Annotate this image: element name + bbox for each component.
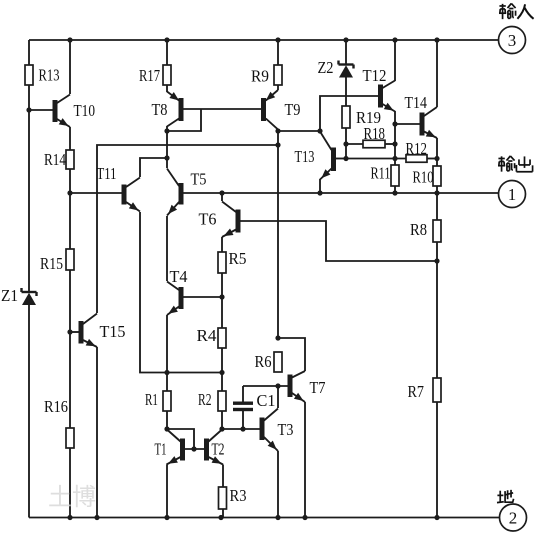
wire: feedback line y=145 to T15 collector	[97, 145, 278, 313]
label R6	[255, 352, 272, 371]
label ground 地	[497, 490, 514, 503]
junction dots column x=70	[67, 190, 72, 334]
svg-text:R18: R18	[364, 124, 386, 143]
resistor R19	[342, 106, 350, 128]
transistor T9	[261, 90, 278, 130]
svg-text:R16: R16	[44, 397, 68, 416]
svg-text:T2: T2	[212, 440, 225, 459]
label R9	[251, 67, 269, 86]
label input 输入	[499, 3, 534, 19]
svg-text:R7: R7	[408, 382, 425, 401]
wire: T11 base	[70, 192, 122, 194]
junction dots column x=437	[434, 156, 439, 264]
resistor R17	[163, 65, 171, 85]
svg-text:T11: T11	[97, 164, 117, 183]
wire: column x=395 (T12 emitter, R11)	[394, 40, 396, 193]
svg-text:T14: T14	[405, 93, 428, 112]
resistor R5	[218, 252, 226, 273]
label T10	[74, 101, 96, 120]
transistor T8	[167, 92, 184, 127]
svg-text:Z2: Z2	[318, 58, 334, 77]
wire: C1 top stem	[242, 386, 244, 402]
svg-text:C1: C1	[257, 391, 276, 410]
wire: T10 base	[29, 109, 53, 111]
resistor R8	[433, 220, 441, 242]
svg-text:Z1: Z1	[1, 286, 18, 305]
wire: R12 row y=158	[346, 158, 437, 160]
wire: column x=278 (R9, T9, R6, T3)	[277, 40, 279, 518]
wire: T12 base	[320, 96, 378, 131]
transistor T11	[122, 178, 141, 212]
svg-text:T6: T6	[199, 210, 217, 229]
label R1	[145, 390, 158, 409]
label T1	[155, 440, 167, 459]
resistor R13	[25, 65, 33, 85]
svg-text:R4: R4	[197, 326, 217, 345]
resistor R11	[391, 165, 399, 186]
zener diode Z2	[339, 61, 354, 78]
junction dots on bottom rail	[67, 515, 439, 520]
junction dot base tie	[191, 446, 196, 451]
resistor R4	[218, 328, 226, 348]
transistor T7	[288, 371, 306, 402]
wire: output row y=193	[183, 192, 498, 194]
wire: R6 node row y=386 (T7 base, C1 top)	[243, 385, 288, 387]
svg-text:R11: R11	[371, 164, 391, 183]
label R7	[408, 382, 425, 401]
junction dot C1 bottom	[240, 426, 245, 431]
resistor R14	[66, 150, 74, 169]
transistor T12	[378, 81, 395, 112]
wire: T13 base	[336, 158, 346, 160]
svg-text:R15: R15	[40, 254, 63, 273]
label T8	[152, 100, 168, 119]
terminal 3 (input pin)	[499, 27, 526, 54]
svg-text:土博: 土博	[48, 484, 96, 511]
svg-text:R14: R14	[44, 150, 66, 169]
label T15	[100, 322, 126, 341]
junction dots column x=222	[219, 190, 224, 431]
label R2	[198, 390, 212, 409]
wire: input top rail	[29, 39, 498, 41]
terminal 1 (output pin)	[499, 181, 526, 208]
transistor T4	[167, 282, 184, 316]
label R3	[230, 486, 247, 505]
wire: tail rail y=373	[167, 372, 222, 374]
label T13	[295, 147, 315, 166]
wire: T14 base	[395, 123, 420, 125]
resistor R16	[66, 428, 74, 448]
wire: R1 to T1/T2 base tie	[167, 429, 194, 449]
wire: T7 collector feed	[278, 338, 305, 371]
label T5	[191, 170, 207, 189]
svg-text:T12: T12	[363, 66, 387, 85]
wire: T2/T3 base row y=429	[222, 428, 260, 430]
svg-text:T9: T9	[285, 100, 301, 119]
junction dots column x=320	[317, 128, 322, 195]
junction dots column x=278	[275, 128, 280, 388]
svg-text:R6: R6	[255, 352, 272, 371]
label T14	[405, 93, 428, 112]
svg-text:T1: T1	[155, 440, 167, 459]
transistor T3	[260, 409, 279, 452]
resistor R10	[433, 166, 441, 186]
wire: T8 collector tie	[167, 109, 201, 131]
label T4	[170, 267, 188, 286]
svg-text:R17: R17	[139, 66, 160, 85]
svg-text:R13: R13	[39, 66, 60, 85]
wire: T1-T2 base row	[184, 448, 205, 450]
watermark smudge	[48, 484, 96, 511]
svg-text:R1: R1	[145, 390, 158, 409]
svg-text:T4: T4	[170, 267, 188, 286]
transistor T6	[222, 202, 241, 238]
transistor T2	[204, 430, 223, 465]
wire: T7 emitter column	[304, 402, 306, 518]
svg-text:1: 1	[508, 185, 517, 204]
transistor T5	[167, 169, 184, 216]
label R12	[406, 139, 428, 158]
label output 输出	[498, 156, 533, 172]
label T7	[310, 378, 326, 397]
transistor T14	[420, 107, 438, 138]
label T11	[97, 164, 117, 183]
label R10	[413, 168, 434, 187]
wire: T13 emitter to output row	[319, 179, 321, 193]
label T2	[212, 440, 225, 459]
wire: T11 emitter down to tail rail	[140, 212, 167, 373]
junction dot T10 base	[26, 107, 31, 112]
svg-text:T15: T15	[100, 322, 126, 341]
wire: left column x=29	[28, 40, 30, 518]
wire: column x=346 (Z2, R19)	[345, 40, 347, 158]
wire: column x=222 (T6 emitter, R5, T4 base node, R4, R2, T2 collector)	[221, 193, 223, 429]
label Z1	[1, 286, 18, 305]
svg-text:2: 2	[509, 509, 518, 528]
wire: T2 emitter to R3	[222, 465, 224, 518]
resistor R2	[218, 391, 226, 411]
junction dots on top rail	[67, 37, 439, 42]
junction dots column x=167	[164, 128, 169, 431]
svg-text:3: 3	[508, 31, 517, 50]
svg-text:R2: R2	[198, 390, 212, 409]
svg-text:R10: R10	[413, 168, 434, 187]
wire: C1 bottom stem	[242, 411, 244, 429]
svg-text:T8: T8	[152, 100, 168, 119]
wire: column x=167 (R17, T8 collector, T5, T4, R1, T1)	[166, 40, 168, 518]
wire: T4 base	[183, 296, 222, 298]
svg-text:T3: T3	[278, 420, 294, 439]
label R15	[40, 254, 63, 273]
svg-text:T13: T13	[295, 147, 315, 166]
wire: ground bottom rail	[29, 517, 499, 519]
resistor R6	[274, 352, 282, 372]
svg-text:R8: R8	[410, 220, 427, 239]
label R8	[410, 220, 427, 239]
svg-text:R3: R3	[230, 486, 247, 505]
label R16	[44, 397, 68, 416]
label C1	[257, 391, 276, 410]
transistor T13	[320, 132, 336, 180]
svg-text:R5: R5	[229, 249, 247, 268]
wire: T9 collector to T13 collector node	[278, 130, 320, 132]
zener diode Z1	[22, 288, 37, 305]
label R18	[364, 124, 386, 143]
capacitor C1	[233, 402, 253, 412]
svg-text:T10: T10	[74, 101, 96, 120]
wire: T11 collector link	[140, 158, 167, 177]
svg-text:T5: T5	[191, 170, 207, 189]
label T6	[199, 210, 217, 229]
resistor R12	[406, 155, 427, 163]
transistor T1	[167, 430, 186, 465]
resistor R3	[219, 487, 227, 509]
resistor R9	[274, 65, 282, 85]
junction dots column x=395	[392, 121, 397, 195]
label T9	[285, 100, 301, 119]
resistor R7	[433, 378, 441, 402]
wire: T8 base to T9 base	[183, 108, 261, 110]
svg-text:T7: T7	[310, 378, 326, 397]
resistor R18	[363, 140, 385, 148]
wire: column x=437 (T14, R10, R8, R7)	[436, 40, 438, 518]
label R14	[44, 150, 66, 169]
wire: T6 base to R8 node	[240, 221, 438, 261]
svg-text:R9: R9	[251, 67, 269, 86]
label R17	[139, 66, 160, 85]
wire: R18 row y=144	[346, 143, 395, 145]
label R11	[371, 164, 391, 183]
transistor T15	[79, 314, 98, 348]
resistor R1	[163, 391, 171, 411]
label T12	[363, 66, 387, 85]
junction dots column x=346	[343, 141, 348, 161]
wire: column x=70 (R13 branch: T10 emitter, R14, R15, R16)	[69, 40, 71, 518]
label Z2	[318, 58, 334, 77]
wire: T15 emitter column x=97	[96, 347, 98, 518]
wire: T15 base	[70, 331, 79, 333]
resistor R15	[66, 249, 74, 270]
terminal 2 (ground pin)	[500, 504, 527, 531]
label R13	[39, 66, 60, 85]
transistor T10	[53, 95, 71, 128]
svg-text:R12: R12	[406, 139, 428, 158]
label R5	[229, 249, 247, 268]
label R19	[356, 108, 381, 127]
label R4	[197, 326, 217, 345]
label T3	[278, 420, 294, 439]
